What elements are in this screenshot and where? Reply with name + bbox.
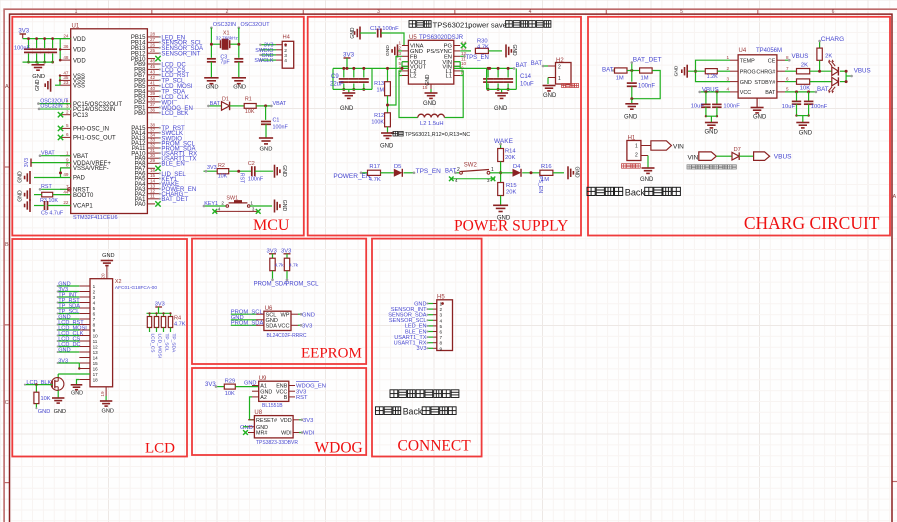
svg-text:D7: D7 bbox=[734, 147, 741, 153]
svg-text:SWCLK: SWCLK bbox=[254, 58, 274, 64]
svg-text:GND: GND bbox=[206, 85, 219, 91]
svg-text:2K: 2K bbox=[801, 63, 808, 69]
svg-text:R3 10K: R3 10K bbox=[40, 198, 58, 204]
svg-text:100nF: 100nF bbox=[638, 84, 655, 90]
svg-text:11: 11 bbox=[150, 194, 155, 199]
svg-text:GND: GND bbox=[511, 44, 517, 56]
svg-text:25: 25 bbox=[150, 48, 156, 53]
svg-text:10K: 10K bbox=[245, 109, 255, 115]
svg-text:BAT: BAT bbox=[516, 62, 528, 69]
svg-text:15: 15 bbox=[93, 361, 99, 366]
svg-text:10K: 10K bbox=[41, 396, 51, 402]
svg-text:32.768kHz: 32.768kHz bbox=[216, 35, 239, 40]
svg-text:SENSOR_INT: SENSOR_INT bbox=[161, 51, 200, 58]
svg-text:R13: R13 bbox=[374, 81, 384, 87]
svg-text:X2: X2 bbox=[115, 279, 122, 285]
svg-text:4.7K: 4.7K bbox=[477, 45, 489, 51]
svg-text:GND: GND bbox=[54, 409, 66, 415]
svg-text:TPS63021,: TPS63021, bbox=[433, 20, 471, 29]
svg-text:1: 1 bbox=[93, 284, 96, 289]
svg-text:20K: 20K bbox=[506, 190, 516, 196]
svg-text:GND: GND bbox=[18, 171, 24, 183]
svg-text:BAT: BAT bbox=[817, 86, 829, 93]
svg-text:GND: GND bbox=[32, 74, 45, 80]
svg-text:SW2: SW2 bbox=[464, 163, 478, 169]
svg-text:2: 2 bbox=[66, 109, 69, 114]
svg-text:SDA: SDA bbox=[266, 324, 278, 330]
svg-text:GND: GND bbox=[18, 190, 24, 202]
svg-text:8: 8 bbox=[66, 163, 69, 168]
svg-text:RST: RST bbox=[41, 184, 52, 190]
svg-text:26: 26 bbox=[150, 42, 156, 47]
svg-text:9: 9 bbox=[66, 157, 69, 162]
svg-text:BL24C02F-RRRC: BL24C02F-RRRC bbox=[267, 333, 307, 339]
svg-text:27: 27 bbox=[150, 37, 156, 42]
svg-text:VDD: VDD bbox=[73, 48, 86, 54]
svg-text:VBUS: VBUS bbox=[774, 154, 792, 161]
svg-text:L2: L2 bbox=[410, 74, 416, 80]
svg-text:4: 4 bbox=[284, 58, 287, 64]
svg-text:2: 2 bbox=[398, 46, 401, 51]
svg-text:3V3: 3V3 bbox=[24, 158, 30, 167]
svg-text:GND: GND bbox=[233, 85, 246, 91]
svg-text:GND: GND bbox=[281, 200, 287, 212]
svg-text:Back: Back bbox=[625, 188, 646, 198]
svg-text:15: 15 bbox=[422, 85, 428, 90]
svg-text:L1: L1 bbox=[446, 74, 452, 80]
svg-text:GND: GND bbox=[640, 177, 654, 183]
svg-text:D4: D4 bbox=[513, 164, 521, 170]
svg-text:14: 14 bbox=[93, 356, 99, 361]
svg-text:5: 5 bbox=[440, 324, 443, 329]
svg-text:4: 4 bbox=[440, 318, 443, 323]
svg-text:MCU: MCU bbox=[253, 217, 290, 234]
svg-text:GND: GND bbox=[740, 80, 752, 86]
svg-text:1M: 1M bbox=[541, 177, 549, 183]
svg-text:C5 4.7uF: C5 4.7uF bbox=[41, 210, 64, 216]
svg-text:10uF: 10uF bbox=[691, 104, 705, 110]
svg-text:TEMP: TEMP bbox=[740, 58, 755, 64]
svg-text:R16: R16 bbox=[541, 164, 552, 170]
svg-text:CONNECT: CONNECT bbox=[398, 438, 472, 455]
svg-text:3: 3 bbox=[284, 53, 287, 59]
svg-text:22uF: 22uF bbox=[330, 82, 344, 88]
svg-text:29: 29 bbox=[150, 158, 156, 163]
svg-text:1: 1 bbox=[726, 55, 729, 60]
svg-text:24: 24 bbox=[63, 33, 69, 38]
svg-text:VBAT: VBAT bbox=[273, 101, 287, 107]
svg-text:GND: GND bbox=[423, 101, 437, 107]
svg-text:TP_SDA: TP_SDA bbox=[170, 334, 176, 353]
svg-text:3: 3 bbox=[726, 76, 729, 81]
svg-text:TP4056M: TP4056M bbox=[756, 48, 782, 54]
svg-text:TPS63020DSJR: TPS63020DSJR bbox=[419, 35, 464, 41]
svg-text:VBUS: VBUS bbox=[854, 67, 871, 74]
svg-text:PC13: PC13 bbox=[73, 113, 89, 119]
svg-text:U6: U6 bbox=[265, 306, 273, 312]
svg-text:11: 11 bbox=[93, 339, 98, 344]
svg-text:46: 46 bbox=[150, 59, 156, 64]
svg-text:WP: WP bbox=[280, 312, 289, 318]
svg-text:19: 19 bbox=[100, 391, 105, 397]
svg-text:38: 38 bbox=[150, 97, 156, 102]
svg-text:U9: U9 bbox=[259, 376, 267, 382]
svg-text:3: 3 bbox=[440, 313, 443, 318]
svg-text:GND: GND bbox=[340, 106, 354, 112]
svg-text:6: 6 bbox=[66, 132, 69, 137]
svg-text:GND: GND bbox=[753, 114, 767, 120]
svg-text:BAT_DET: BAT_DET bbox=[161, 196, 188, 203]
svg-text:MR#: MR# bbox=[256, 431, 267, 437]
svg-text:5: 5 bbox=[786, 87, 789, 92]
svg-text:4.7k: 4.7k bbox=[289, 263, 299, 269]
svg-text:3V3: 3V3 bbox=[303, 418, 313, 424]
svg-text:A: A bbox=[5, 84, 9, 90]
svg-text:BL1551B: BL1551B bbox=[262, 403, 283, 409]
svg-text:100nF: 100nF bbox=[14, 46, 30, 52]
svg-text:GND: GND bbox=[543, 93, 557, 99]
svg-text:16: 16 bbox=[93, 367, 99, 372]
svg-text:WDI: WDI bbox=[303, 431, 315, 437]
svg-text:23: 23 bbox=[63, 80, 69, 85]
svg-text:48: 48 bbox=[63, 55, 69, 60]
svg-text:GND: GND bbox=[302, 312, 315, 318]
svg-text:10K: 10K bbox=[225, 391, 235, 397]
svg-text:C13 100nF: C13 100nF bbox=[370, 26, 399, 32]
svg-text:BAT: BAT bbox=[602, 66, 614, 73]
svg-text:AFC01-G18FCA-00: AFC01-G18FCA-00 bbox=[115, 285, 157, 291]
svg-text:28: 28 bbox=[150, 32, 156, 37]
svg-text:4: 4 bbox=[726, 87, 729, 92]
svg-text:6: 6 bbox=[93, 312, 96, 317]
svg-text:5: 5 bbox=[66, 123, 69, 128]
svg-text:H4: H4 bbox=[283, 35, 291, 41]
svg-text:STM32F411CEU6: STM32F411CEU6 bbox=[73, 215, 118, 221]
svg-text:BOOT0: BOOT0 bbox=[73, 193, 94, 199]
svg-text:C: C bbox=[5, 400, 9, 406]
svg-text:9: 9 bbox=[440, 346, 443, 351]
svg-text:L2 1.5uH: L2 1.5uH bbox=[420, 121, 444, 127]
svg-text:43: 43 bbox=[150, 70, 156, 75]
svg-text:LCD_MOSI: LCD_MOSI bbox=[156, 334, 162, 359]
svg-text:R14: R14 bbox=[505, 149, 516, 155]
svg-text:1.2K: 1.2K bbox=[707, 74, 718, 80]
svg-text:WDOG: WDOG bbox=[315, 440, 363, 457]
svg-text:PROM_SDA: PROM_SDA bbox=[231, 321, 264, 327]
svg-text:1: 1 bbox=[635, 144, 638, 150]
svg-text:B: B bbox=[5, 242, 9, 248]
svg-text:GND: GND bbox=[385, 45, 391, 56]
svg-text:2: 2 bbox=[726, 66, 729, 71]
svg-text:R12: R12 bbox=[374, 113, 384, 119]
svg-text:17: 17 bbox=[93, 372, 99, 377]
svg-text:41: 41 bbox=[150, 80, 156, 85]
svg-text:BAT: BAT bbox=[765, 90, 776, 96]
svg-text:TPS_EN: TPS_EN bbox=[416, 168, 442, 175]
svg-text:PROG: PROG bbox=[740, 69, 756, 75]
svg-text:4.7K: 4.7K bbox=[174, 322, 186, 328]
svg-text:GND: GND bbox=[38, 409, 50, 415]
svg-text:7: 7 bbox=[786, 66, 789, 71]
svg-text:1: 1 bbox=[250, 201, 253, 206]
svg-text:GND: GND bbox=[102, 253, 114, 259]
svg-text:C2: C2 bbox=[248, 161, 255, 167]
svg-text:8: 8 bbox=[440, 341, 443, 346]
svg-text:VCC: VCC bbox=[740, 90, 751, 96]
svg-text:TPS3823-33DBVR: TPS3823-33DBVR bbox=[256, 440, 298, 446]
svg-text:42: 42 bbox=[150, 75, 156, 80]
svg-text:POWER_EN: POWER_EN bbox=[333, 173, 371, 180]
svg-text:VBAT: VBAT bbox=[73, 154, 89, 160]
svg-text:9: 9 bbox=[93, 328, 96, 333]
svg-text:1M: 1M bbox=[616, 76, 624, 82]
svg-text:2: 2 bbox=[221, 201, 224, 206]
svg-text:2: 2 bbox=[635, 153, 638, 159]
svg-text:2K: 2K bbox=[825, 54, 832, 60]
svg-text:VCC: VCC bbox=[278, 324, 290, 330]
svg-text:U4: U4 bbox=[739, 48, 747, 54]
svg-text:4.7K: 4.7K bbox=[369, 177, 381, 183]
svg-text:3: 3 bbox=[398, 51, 401, 56]
svg-text:WDI: WDI bbox=[281, 431, 291, 437]
svg-text:GND: GND bbox=[71, 391, 83, 397]
svg-text:CHARG CIRCUIT: CHARG CIRCUIT bbox=[744, 213, 880, 233]
svg-text:10uF: 10uF bbox=[520, 82, 534, 88]
svg-text:45: 45 bbox=[150, 64, 156, 69]
svg-text:GND: GND bbox=[624, 115, 638, 121]
svg-text:BLE_EN: BLE_EN bbox=[161, 161, 184, 168]
svg-text:PAD: PAD bbox=[73, 176, 86, 182]
svg-text:U8: U8 bbox=[254, 410, 262, 416]
svg-text:TPS63021,R12=0,R13=NC: TPS63021,R12=0,R13=NC bbox=[405, 132, 470, 138]
svg-text:6: 6 bbox=[440, 330, 443, 335]
svg-text:2: 2 bbox=[558, 65, 561, 71]
svg-text:36: 36 bbox=[150, 108, 156, 113]
svg-text:R29: R29 bbox=[225, 378, 235, 384]
svg-text:3V3: 3V3 bbox=[207, 165, 217, 171]
svg-text:3V3: 3V3 bbox=[205, 382, 216, 388]
svg-text:OSC32IN: OSC32IN bbox=[40, 104, 62, 110]
svg-text:TP_SCL: TP_SCL bbox=[163, 334, 169, 352]
svg-text:100nF: 100nF bbox=[273, 124, 289, 130]
svg-text:LCD_CS: LCD_CS bbox=[149, 334, 155, 353]
svg-text:GND: GND bbox=[260, 147, 273, 153]
svg-text:GND: GND bbox=[799, 131, 813, 137]
svg-text:40: 40 bbox=[150, 86, 156, 91]
svg-text:1: 1 bbox=[491, 167, 494, 173]
svg-text:1: 1 bbox=[66, 150, 69, 155]
svg-text:10: 10 bbox=[93, 334, 99, 339]
svg-text:LCD_BLK: LCD_BLK bbox=[161, 110, 188, 117]
svg-text:1: 1 bbox=[558, 76, 561, 82]
svg-text:CE: CE bbox=[768, 58, 776, 64]
svg-text:20: 20 bbox=[101, 273, 106, 279]
svg-text:GND: GND bbox=[35, 79, 41, 91]
svg-text:C14: C14 bbox=[520, 74, 532, 80]
svg-text:49: 49 bbox=[63, 172, 69, 177]
svg-text:GND: GND bbox=[574, 166, 580, 178]
svg-text:39: 39 bbox=[150, 91, 156, 96]
svg-text:4: 4 bbox=[93, 301, 96, 306]
svg-text:R15: R15 bbox=[506, 183, 517, 189]
svg-text:3: 3 bbox=[93, 295, 96, 300]
svg-text:3V3: 3V3 bbox=[58, 358, 68, 364]
svg-text:STDBY#: STDBY# bbox=[754, 80, 775, 86]
svg-text:R1: R1 bbox=[245, 97, 252, 103]
svg-text:VSSA/VREF-: VSSA/VREF- bbox=[73, 166, 109, 172]
svg-text:C1: C1 bbox=[273, 117, 280, 123]
svg-text:BAT_DET: BAT_DET bbox=[633, 57, 662, 64]
svg-text:GND: GND bbox=[425, 74, 431, 86]
svg-text:12: 12 bbox=[93, 345, 99, 350]
svg-text:C9: C9 bbox=[331, 74, 339, 80]
svg-text:GND: GND bbox=[281, 165, 287, 177]
svg-text:100K: 100K bbox=[371, 120, 384, 126]
svg-text:20K: 20K bbox=[505, 155, 515, 161]
svg-text:OSC32OUT: OSC32OUT bbox=[241, 22, 271, 28]
svg-text:VSS: VSS bbox=[73, 83, 85, 89]
svg-text:2: 2 bbox=[284, 48, 287, 54]
svg-text:1: 1 bbox=[398, 40, 401, 45]
svg-text:10uF: 10uF bbox=[782, 104, 796, 110]
svg-text:PA0: PA0 bbox=[135, 202, 147, 208]
svg-text:TPS_EN: TPS_EN bbox=[466, 55, 489, 61]
svg-text:VDD: VDD bbox=[73, 37, 86, 43]
svg-text:U5: U5 bbox=[409, 35, 417, 41]
svg-text:7: 7 bbox=[93, 317, 96, 322]
svg-text:10K: 10K bbox=[218, 174, 228, 180]
svg-text:36: 36 bbox=[63, 44, 69, 49]
svg-text:RESET#: RESET# bbox=[256, 418, 277, 424]
svg-text:R17: R17 bbox=[369, 164, 380, 170]
svg-text:SW1: SW1 bbox=[226, 196, 238, 202]
svg-text:VCAP1: VCAP1 bbox=[73, 204, 93, 210]
svg-text:OSC32IN: OSC32IN bbox=[213, 22, 236, 28]
svg-text:RST: RST bbox=[239, 173, 245, 183]
svg-text:GND: GND bbox=[240, 425, 253, 431]
svg-text:R2: R2 bbox=[218, 163, 225, 169]
svg-text:R30: R30 bbox=[477, 38, 488, 44]
svg-text:VDD: VDD bbox=[280, 418, 291, 424]
svg-text:5: 5 bbox=[93, 306, 96, 311]
svg-text:VBUS: VBUS bbox=[792, 53, 809, 60]
svg-text:RST: RST bbox=[296, 395, 308, 401]
svg-text:POWER SUPPLY: POWER SUPPLY bbox=[454, 217, 568, 234]
svg-text:7: 7 bbox=[440, 335, 443, 340]
svg-text:VIN: VIN bbox=[688, 154, 699, 161]
svg-text:3V3: 3V3 bbox=[417, 346, 427, 352]
svg-text:VBAT: VBAT bbox=[41, 150, 55, 156]
svg-text:PROM_SDA: PROM_SDA bbox=[254, 282, 288, 288]
svg-text:13: 13 bbox=[93, 350, 99, 355]
svg-text:6: 6 bbox=[786, 76, 789, 81]
svg-text:GND: GND bbox=[494, 106, 508, 112]
svg-text:2: 2 bbox=[440, 307, 443, 312]
svg-text:GND: GND bbox=[102, 409, 114, 415]
svg-text:A: A bbox=[892, 194, 896, 200]
svg-text:D5: D5 bbox=[394, 164, 401, 170]
svg-text:D1: D1 bbox=[222, 96, 229, 102]
svg-text:B: B bbox=[284, 395, 288, 401]
svg-text:U1: U1 bbox=[72, 24, 80, 30]
svg-text:3V3: 3V3 bbox=[302, 324, 312, 330]
svg-text:Back: Back bbox=[403, 407, 423, 417]
svg-text:VIN: VIN bbox=[673, 143, 684, 150]
svg-text:A2: A2 bbox=[260, 395, 267, 401]
svg-text:GND: GND bbox=[705, 130, 719, 136]
svg-text:100nF: 100nF bbox=[723, 104, 740, 110]
svg-text:VDD: VDD bbox=[73, 58, 86, 64]
svg-text:7pF: 7pF bbox=[220, 60, 230, 66]
svg-text:PH1-OSC_OUT: PH1-OSC_OUT bbox=[73, 136, 116, 142]
svg-text:GND: GND bbox=[350, 27, 356, 39]
svg-text:PB0: PB0 bbox=[134, 111, 146, 117]
svg-text:PH0-OSC_IN: PH0-OSC_IN bbox=[73, 127, 109, 133]
svg-text:WAKE: WAKE bbox=[494, 138, 514, 145]
svg-text:LCD: LCD bbox=[145, 441, 175, 457]
svg-text:18: 18 bbox=[93, 378, 99, 383]
svg-text:100nF: 100nF bbox=[248, 176, 264, 182]
svg-text:power save: power save bbox=[468, 20, 507, 29]
svg-text:4.7k: 4.7k bbox=[275, 263, 285, 269]
svg-text:2: 2 bbox=[93, 290, 96, 295]
svg-text:22: 22 bbox=[63, 200, 69, 205]
svg-text:BAT: BAT bbox=[531, 61, 543, 67]
svg-text:GND: GND bbox=[380, 144, 394, 150]
svg-text:GND: GND bbox=[58, 347, 70, 353]
svg-text:CHARG: CHARG bbox=[821, 36, 844, 43]
svg-text:EEPROM: EEPROM bbox=[301, 346, 362, 362]
svg-text:CHRG#: CHRG# bbox=[756, 69, 775, 75]
svg-text:8: 8 bbox=[93, 323, 96, 328]
svg-text:100nF: 100nF bbox=[811, 104, 828, 110]
svg-text:GND: GND bbox=[674, 65, 680, 76]
svg-text:1M: 1M bbox=[641, 76, 649, 82]
svg-text:GND: GND bbox=[497, 216, 511, 222]
svg-text:PROM_SCL: PROM_SCL bbox=[285, 282, 319, 288]
svg-text:37: 37 bbox=[150, 102, 156, 107]
svg-text:1M: 1M bbox=[377, 88, 385, 94]
